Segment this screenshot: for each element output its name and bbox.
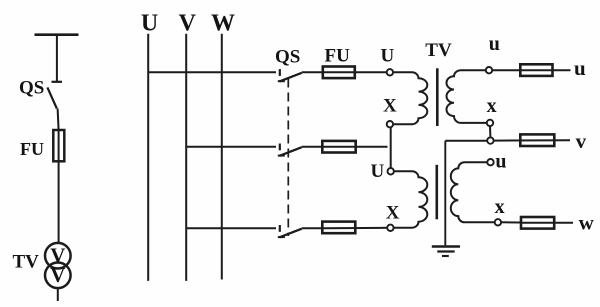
svg-text:U: U <box>381 46 395 67</box>
svg-text:x: x <box>487 95 497 117</box>
svg-text:u: u <box>489 33 500 55</box>
svg-text:U: U <box>371 161 385 182</box>
svg-text:U: U <box>141 11 158 37</box>
svg-text:X: X <box>383 96 397 117</box>
svg-text:V: V <box>50 263 65 287</box>
svg-text:W: W <box>211 11 235 37</box>
svg-text:w: w <box>579 210 595 234</box>
svg-text:QS: QS <box>19 78 44 99</box>
svg-text:x: x <box>495 196 505 218</box>
svg-text:QS: QS <box>275 47 300 68</box>
svg-text:u: u <box>495 151 506 173</box>
svg-text:FU: FU <box>325 46 351 67</box>
svg-text:TV: TV <box>425 40 452 61</box>
svg-text:TV: TV <box>13 252 40 273</box>
svg-text:V: V <box>179 11 197 37</box>
svg-text:u: u <box>574 56 586 80</box>
svg-text:FU: FU <box>20 139 44 159</box>
svg-text:v: v <box>576 129 587 153</box>
svg-text:X: X <box>386 202 400 223</box>
